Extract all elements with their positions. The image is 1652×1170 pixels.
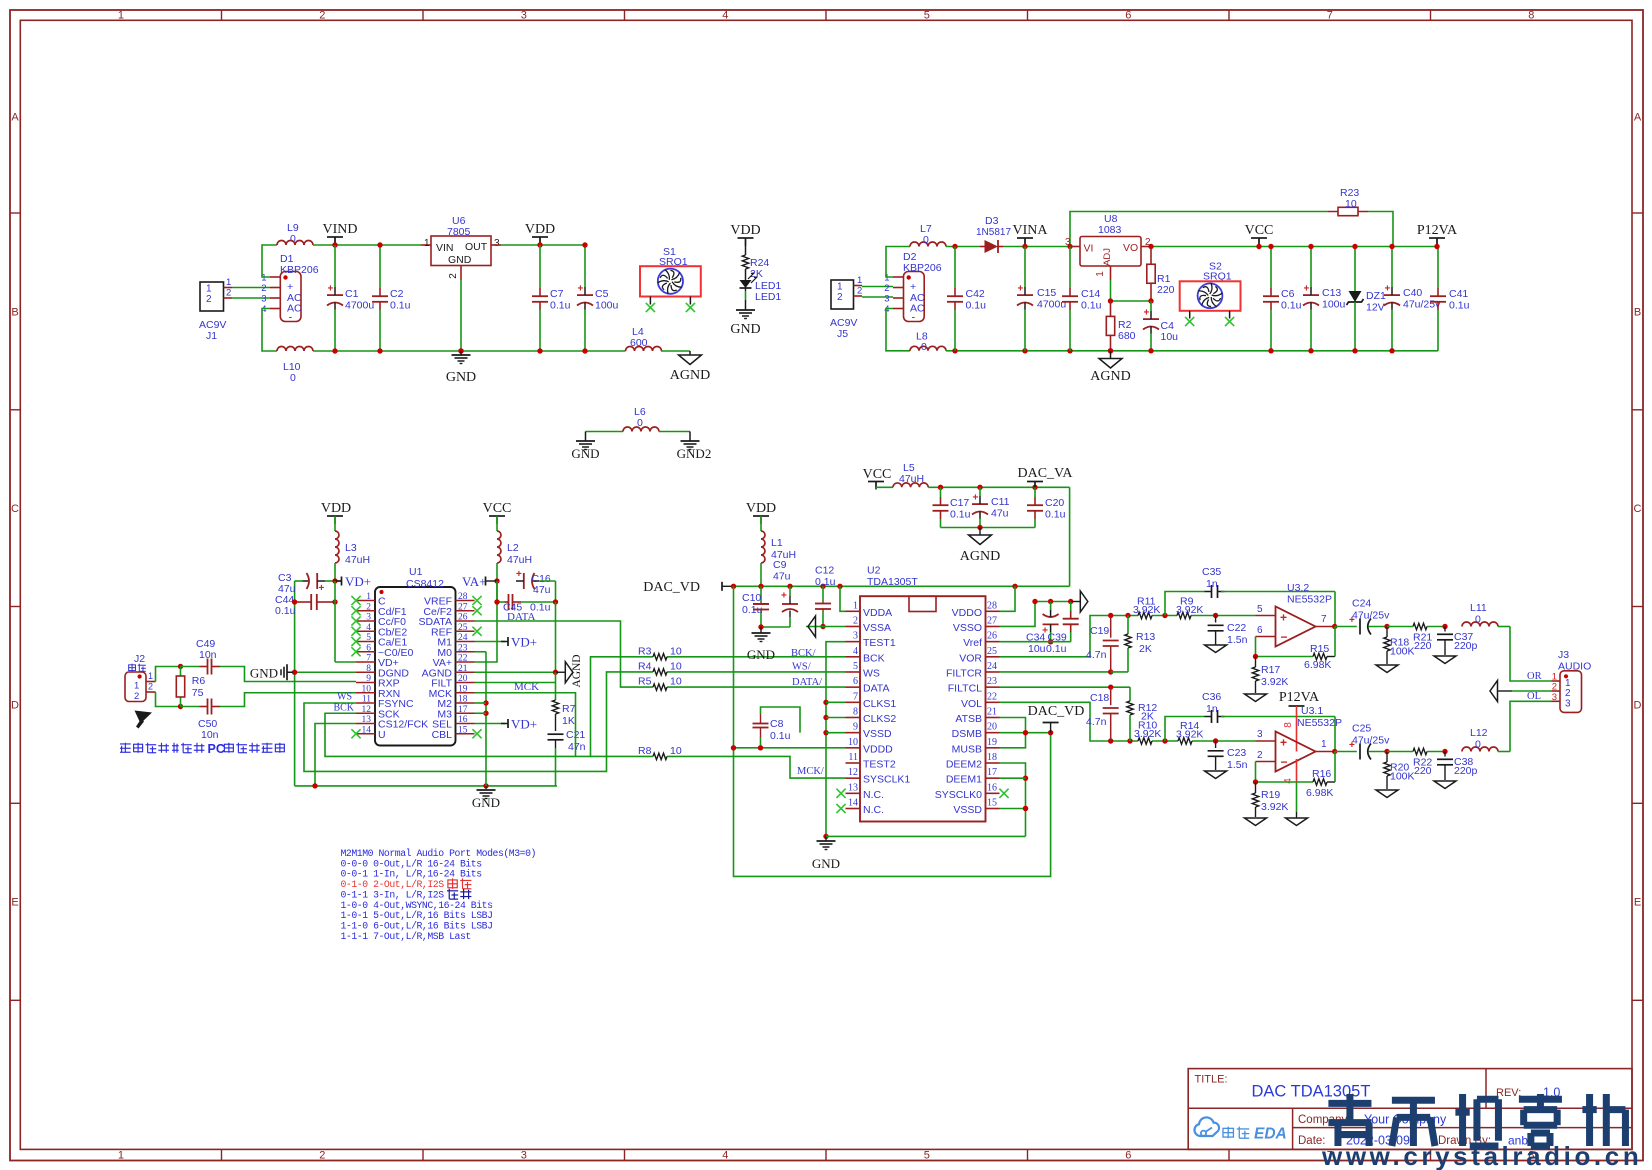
svg-text:FILTCL: FILTCL bbox=[948, 683, 982, 695]
svg-text:C42: C42 bbox=[966, 288, 985, 300]
svg-text:AGND: AGND bbox=[670, 368, 710, 383]
svg-text:2: 2 bbox=[366, 602, 371, 612]
svg-text:0.1u: 0.1u bbox=[1045, 509, 1066, 521]
svg-text:VIND: VIND bbox=[323, 222, 358, 237]
svg-text:R19: R19 bbox=[1261, 789, 1280, 801]
svg-text:C9: C9 bbox=[773, 559, 787, 571]
svg-text:C5: C5 bbox=[595, 288, 609, 300]
svg-text:DAC_VD: DAC_VD bbox=[643, 580, 700, 595]
svg-text:0.1u: 0.1u bbox=[815, 576, 836, 588]
svg-text:3: 3 bbox=[494, 238, 500, 249]
svg-text:1-1-0 6-Out,L/R,16 Bits LSBJ: 1-1-0 6-Out,L/R,16 Bits LSBJ bbox=[341, 920, 493, 931]
svg-text:75: 75 bbox=[192, 687, 204, 699]
svg-text:C22: C22 bbox=[1227, 622, 1246, 634]
svg-text:C24: C24 bbox=[1352, 598, 1371, 610]
svg-text:6: 6 bbox=[1257, 625, 1263, 636]
svg-text:22: 22 bbox=[987, 691, 997, 702]
svg-text:10n: 10n bbox=[201, 729, 219, 741]
svg-text:VDD: VDD bbox=[321, 501, 351, 516]
svg-text:VDDD: VDDD bbox=[863, 743, 893, 755]
svg-text:TEST1: TEST1 bbox=[863, 637, 896, 649]
svg-text:TITLE:: TITLE: bbox=[1195, 1074, 1228, 1086]
svg-text:C40: C40 bbox=[1403, 287, 1422, 299]
svg-text:C10: C10 bbox=[742, 592, 761, 604]
svg-text:8: 8 bbox=[853, 706, 858, 717]
svg-text:E: E bbox=[11, 897, 18, 909]
svg-text:4: 4 bbox=[366, 623, 371, 633]
svg-text:PC: PC bbox=[208, 742, 225, 756]
svg-text:8: 8 bbox=[1283, 722, 1294, 728]
svg-text:9: 9 bbox=[853, 722, 858, 733]
svg-text:4: 4 bbox=[722, 10, 728, 22]
svg-text:1: 1 bbox=[884, 273, 889, 284]
svg-text:2: 2 bbox=[206, 294, 212, 305]
svg-text:VI: VI bbox=[1084, 243, 1094, 255]
svg-text:220: 220 bbox=[1414, 765, 1432, 777]
svg-text:U1: U1 bbox=[409, 566, 423, 578]
svg-text:VD+: VD+ bbox=[345, 574, 371, 589]
svg-text:MUSB: MUSB bbox=[952, 743, 982, 755]
svg-text:4: 4 bbox=[722, 1150, 728, 1162]
svg-text:C17: C17 bbox=[950, 497, 969, 509]
svg-text:24: 24 bbox=[987, 661, 997, 672]
svg-text:C18: C18 bbox=[1090, 692, 1109, 704]
svg-text:OUT: OUT bbox=[465, 241, 488, 253]
svg-text:NE5532P: NE5532P bbox=[1297, 717, 1342, 729]
svg-text:DATA/: DATA/ bbox=[792, 677, 822, 688]
svg-text:7: 7 bbox=[853, 691, 858, 702]
svg-text:3: 3 bbox=[521, 1150, 527, 1162]
svg-text:0-0-1 1-In, L/R,16-24 Bits: 0-0-1 1-In, L/R,16-24 Bits bbox=[341, 869, 483, 880]
svg-text:0.1u: 0.1u bbox=[390, 300, 411, 312]
svg-text:+: + bbox=[319, 583, 325, 594]
svg-text:R6: R6 bbox=[192, 675, 206, 687]
svg-text:B: B bbox=[1634, 307, 1641, 319]
svg-text:3.92K: 3.92K bbox=[1261, 676, 1288, 688]
svg-text:Vref: Vref bbox=[963, 637, 982, 649]
svg-text:0.1u: 0.1u bbox=[950, 509, 971, 521]
svg-text:1: 1 bbox=[148, 671, 153, 681]
svg-text:J2: J2 bbox=[134, 653, 145, 665]
svg-text:15: 15 bbox=[987, 798, 997, 809]
svg-text:12: 12 bbox=[848, 767, 858, 778]
svg-text:22: 22 bbox=[458, 654, 468, 664]
svg-text:C41: C41 bbox=[1449, 288, 1468, 300]
svg-text:3: 3 bbox=[884, 294, 889, 305]
svg-text:−: − bbox=[1281, 755, 1288, 769]
svg-text:VINA: VINA bbox=[1013, 223, 1049, 238]
svg-text:R13: R13 bbox=[1136, 631, 1155, 643]
svg-text:C19: C19 bbox=[1090, 625, 1109, 637]
svg-text:+: + bbox=[516, 569, 522, 580]
svg-text:0: 0 bbox=[290, 233, 296, 245]
svg-text:U3.2: U3.2 bbox=[1287, 582, 1309, 594]
svg-text:1: 1 bbox=[226, 277, 231, 288]
svg-text:R7: R7 bbox=[562, 703, 576, 715]
svg-text:ADJ: ADJ bbox=[1102, 248, 1113, 266]
svg-text:1: 1 bbox=[857, 275, 862, 286]
svg-text:C23: C23 bbox=[1227, 747, 1246, 759]
svg-text:1n: 1n bbox=[1206, 578, 1218, 590]
svg-text:100K: 100K bbox=[1390, 646, 1415, 658]
svg-text:7: 7 bbox=[1321, 614, 1327, 625]
svg-text:VSSD: VSSD bbox=[953, 804, 982, 816]
svg-text:0-1-0 2-Out,L/R,I2S: 0-1-0 2-Out,L/R,I2S bbox=[341, 879, 445, 890]
svg-text:1083: 1083 bbox=[1098, 224, 1122, 236]
svg-text:DATA: DATA bbox=[863, 683, 889, 695]
svg-text:47uH: 47uH bbox=[899, 473, 924, 485]
svg-text:0.1u: 0.1u bbox=[742, 604, 763, 616]
svg-text:www.crystalradio.cn: www.crystalradio.cn bbox=[1321, 1141, 1642, 1170]
svg-text:D: D bbox=[1634, 700, 1642, 712]
svg-text:REV:: REV: bbox=[1496, 1087, 1521, 1099]
svg-text:LED1: LED1 bbox=[755, 291, 781, 303]
svg-text:-: - bbox=[912, 312, 916, 324]
svg-text:VDDO: VDDO bbox=[952, 607, 982, 619]
svg-text:N.C.: N.C. bbox=[863, 804, 884, 816]
svg-text:220: 220 bbox=[1157, 284, 1175, 296]
svg-text:+: + bbox=[1280, 611, 1287, 625]
svg-text:OR: OR bbox=[1527, 671, 1542, 682]
svg-text:14: 14 bbox=[362, 725, 372, 735]
svg-text:26: 26 bbox=[458, 613, 468, 623]
svg-text:VSSA: VSSA bbox=[863, 622, 891, 634]
svg-text:3.92K: 3.92K bbox=[1133, 604, 1160, 616]
svg-text:16: 16 bbox=[987, 782, 997, 793]
svg-text:7: 7 bbox=[366, 654, 371, 664]
svg-text:GND: GND bbox=[747, 647, 775, 662]
svg-text:2: 2 bbox=[448, 273, 459, 279]
svg-text:3: 3 bbox=[1065, 237, 1071, 248]
svg-text:MCK/: MCK/ bbox=[797, 766, 824, 777]
svg-text:+: + bbox=[1385, 284, 1391, 295]
svg-text:VOR: VOR bbox=[959, 652, 982, 664]
svg-text:3.92K: 3.92K bbox=[1134, 728, 1161, 740]
svg-text:0-0-0 0-Out,L/R 16-24 Bits: 0-0-0 0-Out,L/R 16-24 Bits bbox=[341, 858, 483, 869]
svg-text:P12VA: P12VA bbox=[1417, 223, 1458, 238]
svg-text:KBP206: KBP206 bbox=[280, 264, 319, 276]
svg-text:C25: C25 bbox=[1352, 723, 1371, 735]
svg-text:2: 2 bbox=[319, 10, 325, 22]
svg-text:0: 0 bbox=[921, 341, 927, 353]
svg-text:47u/25v: 47u/25v bbox=[1352, 735, 1390, 747]
svg-text:10: 10 bbox=[362, 684, 372, 694]
svg-text:GND2: GND2 bbox=[677, 446, 712, 461]
svg-text:47u/25v: 47u/25v bbox=[1352, 610, 1390, 622]
svg-text:DAC_VD: DAC_VD bbox=[1028, 704, 1085, 719]
svg-text:3: 3 bbox=[261, 294, 266, 305]
svg-text:1.5n: 1.5n bbox=[1227, 634, 1248, 646]
svg-text:6: 6 bbox=[853, 676, 858, 687]
svg-text:1: 1 bbox=[366, 592, 371, 602]
svg-text:14: 14 bbox=[848, 798, 858, 809]
svg-text:GND: GND bbox=[472, 795, 500, 810]
svg-text:VO: VO bbox=[1123, 242, 1138, 254]
svg-text:1-0-1 5-Out,L/R,16 Bits LSBJ: 1-0-1 5-Out,L/R,16 Bits LSBJ bbox=[341, 910, 493, 921]
svg-text:R5: R5 bbox=[638, 676, 652, 688]
svg-text:U2: U2 bbox=[867, 565, 881, 577]
svg-text:11: 11 bbox=[848, 752, 858, 763]
svg-text:+: + bbox=[781, 591, 787, 602]
svg-text:J5: J5 bbox=[837, 328, 848, 340]
svg-text:0: 0 bbox=[923, 234, 929, 246]
svg-text:4.7n: 4.7n bbox=[1086, 649, 1107, 661]
svg-text:9: 9 bbox=[366, 674, 371, 684]
svg-text:10: 10 bbox=[670, 745, 682, 757]
svg-text:5: 5 bbox=[366, 633, 371, 643]
svg-text:VA+: VA+ bbox=[462, 574, 486, 589]
svg-text:VDDA: VDDA bbox=[863, 607, 892, 619]
svg-text:J3: J3 bbox=[1558, 649, 1569, 661]
svg-text:1-0-0 4-Out,WSYNC,16-24 Bits: 1-0-0 4-Out,WSYNC,16-24 Bits bbox=[341, 900, 494, 911]
svg-text:24: 24 bbox=[458, 633, 468, 643]
svg-text:0: 0 bbox=[290, 372, 296, 384]
svg-text:DZ1: DZ1 bbox=[1366, 290, 1386, 302]
svg-text:0: 0 bbox=[1475, 739, 1481, 751]
svg-text:10: 10 bbox=[1345, 198, 1357, 210]
svg-text:0.1u: 0.1u bbox=[1081, 300, 1102, 312]
svg-text:CBL: CBL bbox=[432, 729, 453, 741]
svg-text:0.1u: 0.1u bbox=[966, 300, 987, 312]
svg-text:BCK/: BCK/ bbox=[791, 648, 816, 659]
svg-text:20: 20 bbox=[987, 722, 997, 733]
svg-text:1.5n: 1.5n bbox=[1227, 759, 1248, 771]
svg-text:0.1u: 0.1u bbox=[1449, 300, 1470, 312]
svg-text:AGND: AGND bbox=[960, 549, 1000, 564]
svg-text:NE5532P: NE5532P bbox=[1287, 594, 1332, 606]
svg-text:OL: OL bbox=[1527, 691, 1541, 702]
svg-text:AGND: AGND bbox=[1090, 369, 1130, 384]
svg-text:10: 10 bbox=[670, 645, 682, 657]
svg-text:12: 12 bbox=[362, 705, 372, 715]
svg-text:5: 5 bbox=[924, 1150, 930, 1162]
svg-text:TDA1305T: TDA1305T bbox=[867, 576, 918, 588]
svg-text:0.1u: 0.1u bbox=[275, 605, 296, 617]
svg-text:DAC_VA: DAC_VA bbox=[1018, 466, 1074, 481]
svg-text:0-1-1 3-In, L/R,I2S: 0-1-1 3-In, L/R,I2S bbox=[341, 889, 445, 900]
svg-text:+: + bbox=[1018, 284, 1024, 295]
svg-text:4: 4 bbox=[884, 304, 889, 315]
svg-text:16: 16 bbox=[458, 715, 468, 725]
svg-text:0.1u: 0.1u bbox=[770, 730, 791, 742]
svg-text:VDD: VDD bbox=[730, 223, 760, 238]
svg-text:A: A bbox=[1634, 112, 1642, 124]
svg-text:4700u: 4700u bbox=[345, 300, 374, 312]
svg-text:+: + bbox=[1280, 736, 1287, 750]
svg-text:1: 1 bbox=[206, 284, 212, 295]
svg-text:5: 5 bbox=[853, 661, 858, 672]
svg-text:220: 220 bbox=[1414, 640, 1432, 652]
svg-text:CS8412: CS8412 bbox=[406, 578, 444, 590]
svg-text:0.1u: 0.1u bbox=[550, 300, 571, 312]
svg-text:2: 2 bbox=[1257, 750, 1263, 761]
svg-text:C8: C8 bbox=[770, 718, 784, 730]
svg-text:3: 3 bbox=[521, 10, 527, 22]
svg-text:27: 27 bbox=[458, 602, 468, 612]
svg-text:7: 7 bbox=[1327, 10, 1333, 22]
svg-text:3: 3 bbox=[1552, 692, 1557, 703]
svg-text:GND: GND bbox=[250, 665, 278, 680]
svg-text:M2M1M0 Normal Audio Port Modes: M2M1M0 Normal Audio Port Modes(M3=0) bbox=[341, 848, 536, 859]
svg-text:C12: C12 bbox=[815, 565, 834, 577]
svg-text:220p: 220p bbox=[1454, 640, 1478, 652]
svg-text:3.92K: 3.92K bbox=[1176, 729, 1203, 741]
svg-text:1: 1 bbox=[853, 600, 858, 611]
svg-text:1: 1 bbox=[837, 282, 843, 293]
svg-text:10u: 10u bbox=[1161, 331, 1179, 343]
svg-text:DATA: DATA bbox=[507, 611, 536, 623]
svg-text:23: 23 bbox=[458, 643, 468, 653]
svg-text:GND: GND bbox=[446, 370, 476, 385]
svg-text:20: 20 bbox=[458, 674, 468, 684]
svg-text:C36: C36 bbox=[1202, 691, 1221, 703]
svg-text:2: 2 bbox=[837, 292, 843, 303]
svg-text:−: − bbox=[1281, 630, 1288, 644]
svg-text:17: 17 bbox=[458, 705, 468, 715]
svg-text:2: 2 bbox=[853, 615, 858, 626]
svg-text:1: 1 bbox=[1321, 739, 1327, 750]
svg-text:U: U bbox=[378, 729, 386, 741]
svg-text:VCC: VCC bbox=[863, 467, 892, 482]
svg-text:10: 10 bbox=[670, 660, 682, 672]
svg-text:2K: 2K bbox=[1139, 643, 1152, 655]
svg-text:100u: 100u bbox=[1322, 299, 1346, 311]
svg-text:25: 25 bbox=[987, 646, 997, 657]
svg-text:E: E bbox=[1634, 897, 1641, 909]
svg-text:VCC: VCC bbox=[483, 501, 512, 516]
svg-text:2: 2 bbox=[261, 283, 266, 294]
svg-text:5: 5 bbox=[924, 10, 930, 22]
svg-text:1: 1 bbox=[134, 681, 139, 692]
svg-text:GND: GND bbox=[730, 322, 760, 337]
svg-text:0.1u: 0.1u bbox=[1281, 300, 1302, 312]
svg-text:6: 6 bbox=[366, 643, 371, 653]
svg-text:C11: C11 bbox=[991, 496, 1010, 508]
svg-text:4.7n: 4.7n bbox=[1086, 716, 1107, 728]
svg-text:C6: C6 bbox=[1281, 288, 1295, 300]
svg-text:VD+: VD+ bbox=[511, 717, 537, 732]
svg-text:47u/25v: 47u/25v bbox=[1403, 299, 1441, 311]
svg-text:-: - bbox=[289, 312, 293, 324]
svg-text:4: 4 bbox=[1283, 778, 1294, 784]
svg-text:100u: 100u bbox=[595, 300, 619, 312]
svg-text:VCC: VCC bbox=[1245, 223, 1274, 238]
svg-text:C20: C20 bbox=[1045, 497, 1064, 509]
svg-text:2: 2 bbox=[884, 283, 889, 294]
svg-text:27: 27 bbox=[987, 615, 997, 626]
svg-text:10: 10 bbox=[848, 737, 858, 748]
svg-text:21: 21 bbox=[458, 664, 468, 674]
svg-text:BCK: BCK bbox=[333, 703, 354, 714]
svg-text:+: + bbox=[973, 493, 979, 504]
svg-text:3.92K: 3.92K bbox=[1261, 801, 1288, 813]
svg-text:47u: 47u bbox=[773, 571, 791, 583]
svg-text:DEEM1: DEEM1 bbox=[946, 774, 982, 786]
svg-text:GND: GND bbox=[571, 446, 599, 461]
svg-text:TEST2: TEST2 bbox=[863, 759, 896, 771]
svg-text:R4: R4 bbox=[638, 660, 652, 672]
svg-text:17: 17 bbox=[987, 767, 997, 778]
svg-text:C13: C13 bbox=[1322, 287, 1341, 299]
svg-text:GND: GND bbox=[812, 856, 840, 871]
svg-text:10u: 10u bbox=[1028, 643, 1046, 655]
svg-text:3: 3 bbox=[1257, 729, 1263, 740]
svg-text:23: 23 bbox=[987, 676, 997, 687]
svg-text:KBP206: KBP206 bbox=[903, 262, 942, 274]
svg-text:28: 28 bbox=[987, 600, 997, 611]
svg-text:L1: L1 bbox=[771, 537, 783, 549]
svg-text:C: C bbox=[11, 503, 19, 515]
svg-text:28: 28 bbox=[458, 592, 468, 602]
svg-text:1K: 1K bbox=[562, 715, 575, 727]
svg-text:VD+: VD+ bbox=[511, 635, 537, 650]
svg-text:1-1-1 7-Out,L/R,MSB Last: 1-1-1 7-Out,L/R,MSB Last bbox=[341, 931, 471, 942]
svg-text:D: D bbox=[11, 700, 19, 712]
svg-text:+: + bbox=[1144, 308, 1150, 319]
svg-text:N.C.: N.C. bbox=[863, 789, 884, 801]
svg-text:0: 0 bbox=[1475, 614, 1481, 626]
svg-text:25: 25 bbox=[458, 623, 468, 633]
svg-text:VIN: VIN bbox=[436, 242, 454, 254]
svg-text:L2: L2 bbox=[507, 542, 519, 554]
svg-text:1N5817: 1N5817 bbox=[976, 227, 1011, 238]
svg-text:L3: L3 bbox=[345, 542, 357, 554]
svg-text:5: 5 bbox=[1257, 604, 1263, 615]
svg-text:0: 0 bbox=[637, 417, 643, 429]
svg-text:6.98K: 6.98K bbox=[1304, 659, 1331, 671]
svg-text:13: 13 bbox=[362, 715, 372, 725]
svg-text:R16: R16 bbox=[1312, 768, 1331, 780]
svg-text:BCK: BCK bbox=[863, 652, 885, 664]
svg-text:B: B bbox=[11, 307, 18, 319]
svg-text:10: 10 bbox=[670, 676, 682, 688]
svg-text:8: 8 bbox=[1528, 10, 1534, 22]
svg-text:J1: J1 bbox=[206, 330, 217, 342]
svg-text:3: 3 bbox=[853, 631, 858, 642]
svg-text:WS: WS bbox=[863, 667, 880, 679]
svg-text:D3: D3 bbox=[985, 215, 999, 227]
svg-text:6: 6 bbox=[1125, 10, 1131, 22]
svg-text:4: 4 bbox=[853, 646, 858, 657]
svg-text:26: 26 bbox=[987, 631, 997, 642]
svg-text:R17: R17 bbox=[1261, 664, 1280, 676]
svg-text:P12VA: P12VA bbox=[1279, 690, 1320, 705]
svg-text:L11: L11 bbox=[1470, 602, 1487, 614]
svg-text:1: 1 bbox=[118, 10, 124, 22]
svg-text:7805: 7805 bbox=[447, 226, 471, 238]
svg-text:ATSB: ATSB bbox=[955, 713, 982, 725]
svg-text:2: 2 bbox=[148, 682, 153, 692]
svg-text:VOL: VOL bbox=[961, 698, 982, 710]
svg-text:2: 2 bbox=[226, 288, 231, 299]
svg-text:R8: R8 bbox=[638, 745, 652, 757]
svg-text:+: + bbox=[328, 284, 334, 295]
svg-text:15: 15 bbox=[458, 725, 468, 735]
svg-text:C2: C2 bbox=[390, 288, 404, 300]
svg-text:18: 18 bbox=[458, 695, 468, 705]
svg-text:EDA: EDA bbox=[1254, 1126, 1287, 1143]
svg-text:DEEM2: DEEM2 bbox=[946, 759, 982, 771]
svg-text:47u: 47u bbox=[533, 584, 551, 596]
svg-text:R15: R15 bbox=[1310, 643, 1329, 655]
svg-text:220p: 220p bbox=[1454, 765, 1478, 777]
svg-text:2: 2 bbox=[319, 1150, 325, 1162]
svg-text:13: 13 bbox=[848, 782, 858, 793]
svg-text:SYSCLK0: SYSCLK0 bbox=[935, 789, 982, 801]
svg-text:VDD: VDD bbox=[525, 222, 555, 237]
svg-text:VDD: VDD bbox=[746, 501, 776, 516]
svg-text:SYSCLK1: SYSCLK1 bbox=[863, 774, 910, 786]
